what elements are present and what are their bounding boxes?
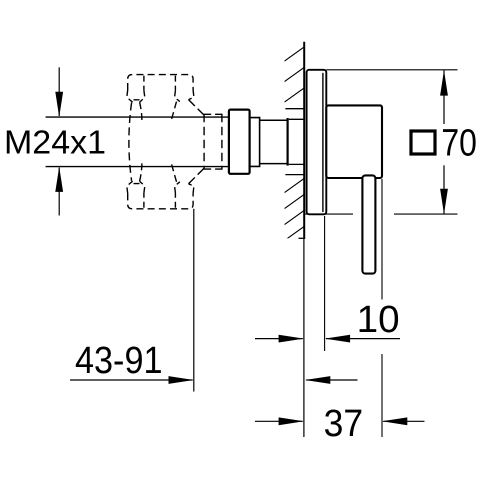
dimension 43-91: extension line from valve end — [193, 209, 195, 392]
square symbol for 70 — [411, 131, 435, 154]
valve body dashed outlet stub: top and bottom edges — [204, 114, 223, 169]
valve body dashed line: right lug to right face diagonal (bottom) — [189, 168, 205, 184]
cylinder section — [260, 120, 288, 163]
wall extension line — [303, 238, 305, 437]
svg-text:10: 10 — [357, 299, 400, 341]
handle extension line upper segment — [381, 179, 383, 300]
valve body dashed line: left lug inner neck (top) — [140, 102, 142, 120]
step ring — [250, 118, 260, 167]
dimension 43-91: left line with right-pointing arrow — [70, 376, 194, 384]
valve body dashed outline: top-right lug flare and waist — [175, 90, 194, 102]
dimension M24x1: bottom arrow — [55, 167, 63, 216]
valve body dashed arc: ball body left silhouette — [129, 103, 132, 181]
valve body dashed line: right lug inner neck (top) — [172, 102, 177, 120]
dimension 37: right arrow pointing left at handle edge — [382, 417, 425, 425]
valve body dashed outline: top-left lug flare and waist — [127, 90, 145, 102]
dimension 70: top extension line — [326, 69, 457, 71]
wall hatching upper band — [285, 46, 306, 123]
flange before wall — [287, 118, 289, 166]
valve body dashed outline: right lug inner edge (top) — [174, 76, 176, 91]
svg-text:43-91: 43-91 — [75, 340, 163, 382]
dimension 70: bottom extension line (right of lever) — [394, 213, 458, 215]
wall bottom cap — [299, 237, 306, 239]
dimension 70: vertical line upper segment with arrow — [440, 70, 448, 124]
svg-text:37: 37 — [324, 403, 364, 445]
wall opening lower boundary — [285, 174, 304, 176]
valve body dashed outline: bottom-left lug flare and waist — [127, 181, 145, 193]
valve body dashed line: right lug inner neck (bottom) — [172, 164, 177, 182]
dimension 70: vertical line lower segment with arrow — [440, 165, 448, 214]
valve body dashed line: right end face vertical — [203, 114, 205, 170]
dimension 10: left arrow pointing right at wall — [255, 335, 304, 343]
escutcheon extension line — [324, 216, 326, 351]
valve body dashed outline: left lug inner edge (top) — [143, 76, 145, 91]
valve body dashed outline: left lug inner edge (bottom) — [143, 193, 145, 208]
dimension 70: bottom extension line (left of lever) — [304, 213, 353, 215]
dimension M24x1: top arrow — [55, 67, 63, 117]
wall opening upper boundary — [285, 108, 304, 110]
svg-text:70: 70 — [441, 123, 477, 165]
valve body dashed line: left lug inner neck (bottom) — [140, 163, 142, 181]
valve body dashed outline: right lug inner edge (bottom) — [174, 193, 176, 208]
valve body dashed outline: bottom edge of lug flange — [128, 193, 193, 208]
escutcheon face bevel line — [322, 74, 324, 212]
dimension 10: right arrow pointing left at escutcheon face — [325, 335, 400, 343]
spindle bottom line — [46, 166, 229, 168]
svg-text:M24x1: M24x1 — [4, 124, 106, 161]
escutcheon plate (side view) — [307, 70, 327, 215]
valve body dashed outline: bottom-right lug flare and waist — [175, 182, 194, 194]
valve body dashed line: right lug to right face diagonal (top) — [189, 100, 205, 116]
valve body dashed outline: top edge of lug flange — [128, 75, 193, 90]
wall hatching lower band — [285, 178, 306, 257]
handle body — [326, 105, 382, 178]
dimension 37: left arrow pointing right at wall — [255, 417, 304, 425]
shaft through wall opening — [289, 119, 304, 164]
lever handle bar — [362, 175, 375, 273]
wall line — [303, 42, 305, 239]
dimension 43-91: right tail with left-pointing arrow at wall — [305, 376, 358, 384]
hex nut block — [229, 110, 250, 174]
handle extension line lower segment — [381, 354, 383, 437]
spindle top line — [46, 116, 229, 118]
valve body dashed outlet stub: vertical right — [221, 114, 223, 170]
